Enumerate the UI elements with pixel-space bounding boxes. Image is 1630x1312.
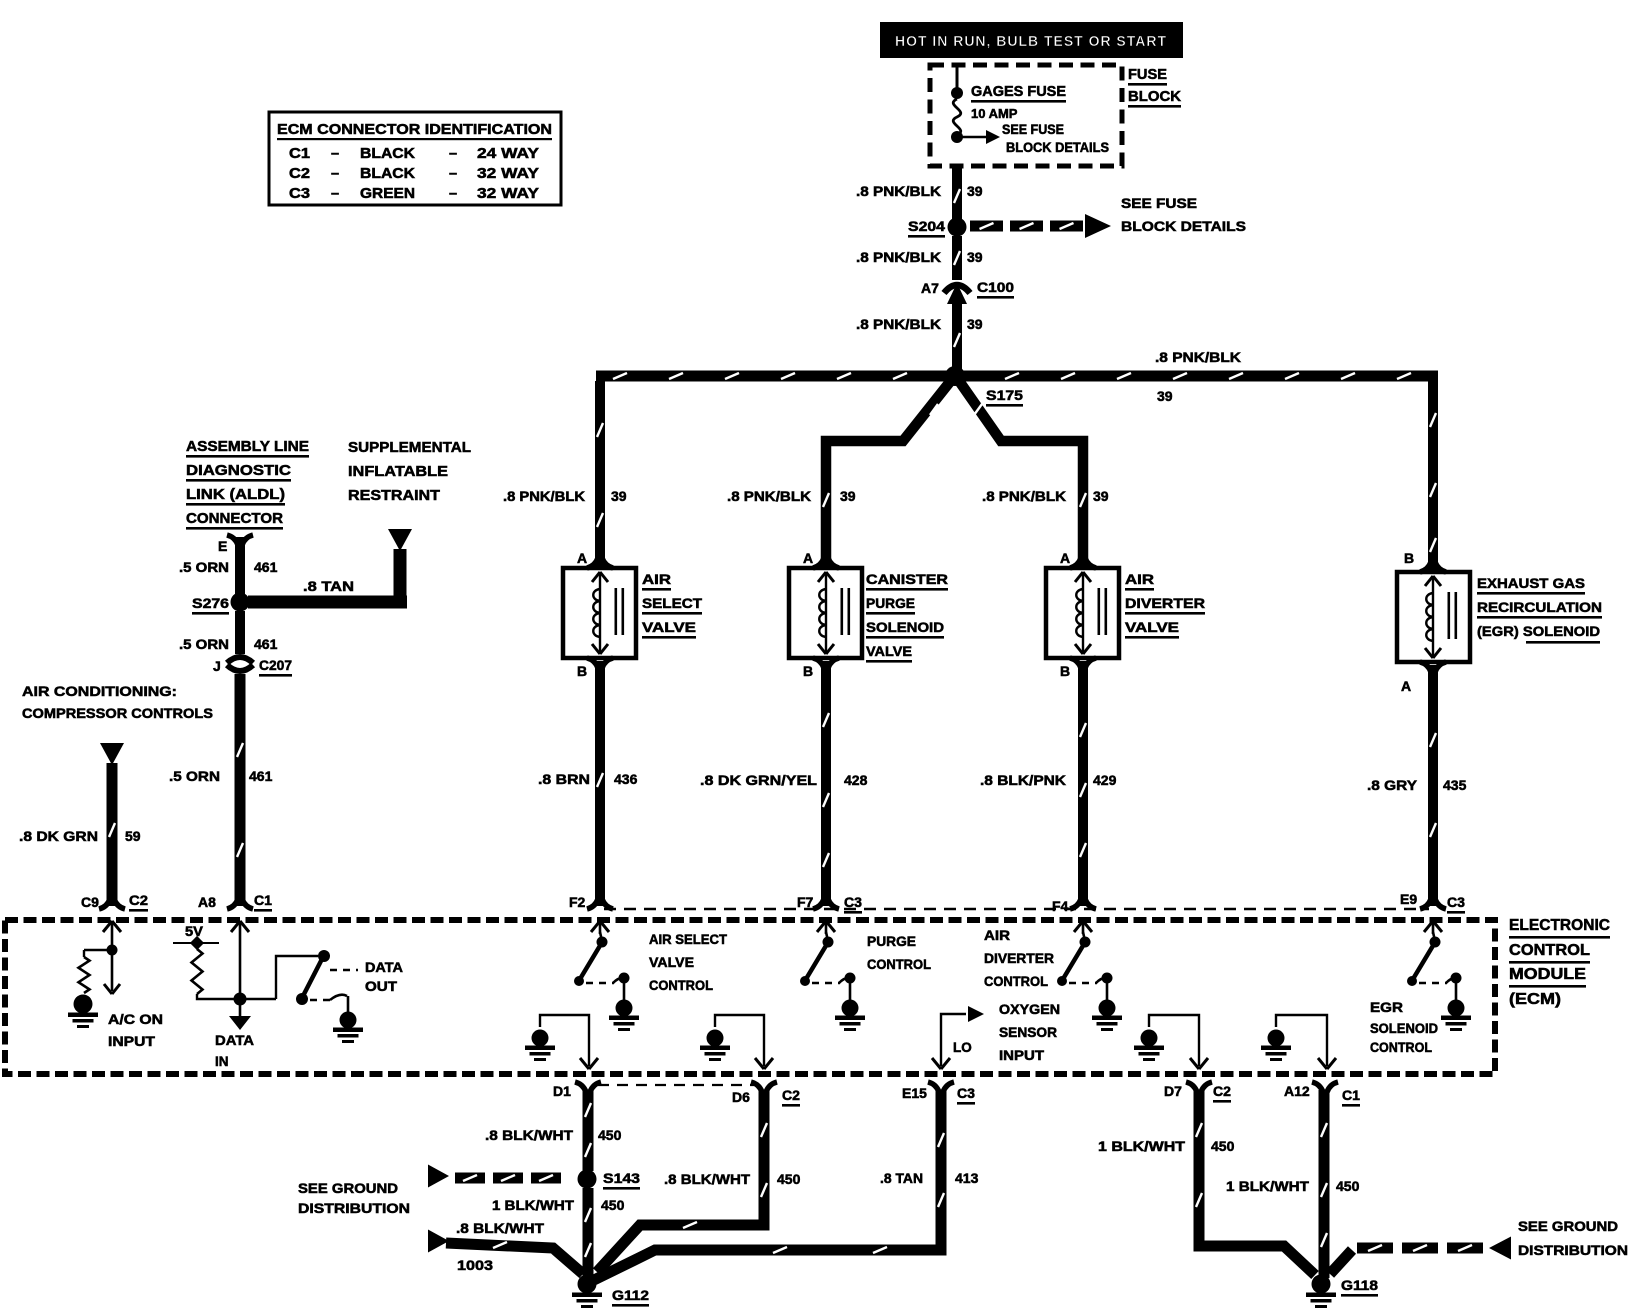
label C100 (977, 279, 1014, 299)
svg-text:B: B (1404, 550, 1414, 566)
label 436 (614, 771, 638, 787)
label .8 PNK/BLK (diverter) (982, 488, 1066, 504)
label A (purge) (803, 550, 813, 566)
label ASSEMBLY LINE (186, 438, 309, 458)
connector ALDL pin E top (227, 535, 253, 545)
label BLOCK DETAILS (in box) (1006, 140, 1109, 155)
label .8 BLK/PNK (980, 772, 1066, 788)
label DIVERTER (ctl) (984, 951, 1054, 966)
svg-text:EXHAUST GAS: EXHAUST GAS (1477, 575, 1585, 591)
label S204 (908, 218, 945, 238)
wire DATA IN (197, 934, 276, 1030)
wire A/C input down arrow (104, 952, 120, 994)
svg-text:.8 BLK/PNK: .8 BLK/PNK (980, 772, 1066, 788)
switch EGR solenoid control E9 (1407, 932, 1471, 1031)
label 39 (diverter) (1093, 488, 1109, 504)
label 39 (S204-C100) (967, 249, 983, 265)
svg-text:BLOCK DETAILS: BLOCK DETAILS (1006, 140, 1109, 155)
pin arrow F4 (1074, 921, 1092, 934)
connector pin F2 at ECM (587, 899, 613, 909)
svg-text:CONTROL: CONTROL (867, 957, 931, 972)
resistor A/C pull-up (79, 950, 110, 993)
label C3 (E9) (1447, 894, 1465, 914)
label AIR CONDITIONING: (22, 683, 177, 699)
label OXYGEN (999, 1002, 1060, 1017)
svg-text:A7: A7 (921, 280, 939, 296)
label 435 (1443, 777, 1467, 793)
svg-text:COMPRESSOR CONTROLS: COMPRESSOR CONTROLS (22, 705, 213, 721)
svg-text:A: A (1401, 678, 1411, 694)
svg-text:F2: F2 (569, 894, 586, 910)
label .5 ORN (C207-A8) (169, 768, 220, 784)
label 450 (A12) (1336, 1178, 1360, 1194)
wire 450 A12 to G118 (1319, 1090, 1330, 1278)
label .8 PNK/BLK (fuse) (856, 183, 941, 199)
label ELECTRONIC (1509, 917, 1610, 939)
svg-text:SELECT: SELECT (642, 595, 702, 611)
svg-text:A12: A12 (1284, 1083, 1310, 1099)
svg-text:1003: 1003 (457, 1257, 493, 1273)
svg-text:1 BLK/WHT: 1 BLK/WHT (492, 1197, 574, 1213)
svg-text:1 BLK/WHT: 1 BLK/WHT (1098, 1138, 1186, 1154)
label .8 PNK/BLK (bus right) (1155, 349, 1241, 365)
label INPUT (O2) (999, 1048, 1045, 1063)
label DISTRIBUTION (right) (1518, 1242, 1628, 1258)
label DIAGNOSTIC (186, 462, 291, 482)
svg-text:450: 450 (601, 1197, 625, 1213)
svg-text:GREEN: GREEN (360, 186, 415, 202)
label DATA (out) (365, 960, 403, 975)
splice S175 (945, 366, 965, 386)
svg-text:.5 ORN: .5 ORN (169, 768, 220, 784)
svg-text:39: 39 (611, 488, 627, 504)
pin arrow F7 (817, 921, 835, 934)
svg-text:AIR: AIR (1125, 571, 1154, 587)
node 5V supply (173, 924, 219, 950)
svg-text:IN: IN (215, 1054, 229, 1069)
svg-text:J: J (213, 658, 221, 674)
svg-text:SEE FUSE: SEE FUSE (1121, 195, 1197, 211)
label AIR (air diverter valve) (1125, 571, 1154, 591)
connector pin A EGR solenoid (1420, 662, 1446, 672)
label 39 (fuse) (967, 183, 983, 199)
label .8 BLK/WHT (1003) (456, 1220, 544, 1236)
svg-text:.8 PNK/BLK: .8 PNK/BLK (503, 488, 585, 504)
label EGR (1370, 1000, 1403, 1015)
svg-text:CANISTER: CANISTER (866, 571, 948, 587)
wire 436 air select B to F2 (595, 661, 605, 906)
svg-text:E9: E9 (1400, 891, 1417, 907)
ground G118 (1312, 1275, 1331, 1294)
label .8 PNK/BLK (air select) (503, 488, 585, 504)
label G112 (612, 1287, 649, 1307)
svg-text:429: 429 (1093, 772, 1117, 788)
label GAGES FUSE (971, 83, 1066, 103)
svg-text:VALVE: VALVE (649, 955, 694, 970)
connector pin E15 at ECM bottom (928, 1082, 954, 1092)
label IN (215, 1054, 229, 1069)
label 413 (955, 1170, 979, 1186)
label CANISTER (canister purge solenoid valve) (866, 571, 948, 591)
svg-text:450: 450 (1211, 1138, 1235, 1154)
svg-text:HOT IN RUN, BULB TEST OR START: HOT IN RUN, BULB TEST OR START (895, 34, 1167, 50)
connector pin B air select valve (587, 658, 613, 668)
label .8 BLK/WHT (D1) (485, 1127, 573, 1143)
svg-text:DIAGNOSTIC: DIAGNOSTIC (186, 462, 291, 479)
wire 450 D6 to G112 (597, 1090, 767, 1272)
label .8 TAN (303, 578, 354, 594)
svg-text:CONTROL: CONTROL (1509, 942, 1590, 959)
svg-text:59: 59 (125, 828, 141, 844)
label SOLENOID (ctl) (1370, 1021, 1438, 1036)
resistor 5V pull-up (192, 949, 203, 994)
label SUPPLEMENTAL (348, 439, 471, 456)
connector pin D1 at ECM bottom (575, 1082, 601, 1092)
svg-text:PURGE: PURGE (867, 934, 916, 949)
wire 1003 to G112 (428, 1230, 583, 1275)
fuse GAGES FUSE 10A element (953, 99, 961, 135)
splice S143 (578, 1170, 597, 1189)
svg-text:S175: S175 (986, 387, 1023, 403)
svg-text:32 WAY: 32 WAY (477, 166, 539, 182)
wire data out switch feed (276, 956, 318, 999)
label C207 (259, 657, 292, 677)
connector pin A8 at ECM (227, 899, 253, 909)
label PURGE (867, 934, 916, 949)
svg-text:.8 DK GRN: .8 DK GRN (19, 828, 98, 844)
svg-text:10 AMP: 10 AMP (971, 106, 1018, 121)
wire .8 TAN to SIR (248, 549, 407, 609)
label E (218, 538, 227, 554)
svg-text:RESTRAINT: RESTRAINT (348, 487, 440, 504)
ground A/C resistor (74, 995, 93, 1014)
svg-text:G118: G118 (1341, 1277, 1378, 1293)
label 450 (D1) (598, 1127, 622, 1143)
label A (diverter) (1060, 550, 1070, 566)
label 450 (S143) (601, 1197, 625, 1213)
svg-text:SEE FUSE: SEE FUSE (1002, 122, 1064, 137)
label SEE GROUND (right) (1518, 1218, 1618, 1234)
connector C207 pin J (227, 657, 253, 671)
label C9 (81, 894, 99, 910)
label SEE FUSE (in box) (1002, 122, 1064, 137)
ground hook D1 (525, 1015, 598, 1069)
label MODULE (1509, 966, 1586, 988)
label SENSOR (999, 1025, 1057, 1040)
connector pin A canister purge solenoid valve (813, 558, 839, 568)
svg-text:C2: C2 (289, 166, 310, 182)
svg-text:DISTRIBUTION: DISTRIBUTION (1518, 1242, 1628, 1258)
wire 413 E15 to G112 (594, 1090, 944, 1280)
label J (213, 658, 221, 674)
label F4 (1052, 898, 1069, 914)
svg-text:–: – (331, 146, 339, 162)
svg-text:A8: A8 (198, 894, 216, 910)
svg-text:CONTROL: CONTROL (984, 974, 1048, 989)
wire arrow to fuse details (957, 130, 1000, 144)
label .8 GRY (1367, 777, 1418, 793)
label 1 BLK/WHT (A12) (1226, 1178, 1309, 1194)
svg-text:E15: E15 (902, 1085, 927, 1101)
svg-text:RECIRCULATION: RECIRCULATION (1477, 599, 1602, 615)
svg-text:INPUT: INPUT (108, 1034, 156, 1049)
svg-text:EGR: EGR (1370, 1000, 1403, 1015)
svg-text:OUT: OUT (365, 979, 398, 994)
label .5 ORN (E) (179, 559, 229, 575)
svg-text:BLOCK: BLOCK (1128, 88, 1181, 105)
svg-text:.8 TAN: .8 TAN (880, 1170, 923, 1186)
label VALVE (ctl) (649, 955, 694, 970)
label INPUT (A/C) (108, 1034, 156, 1049)
label 59 (125, 828, 141, 844)
wire connector row dashed D1-D6 (598, 1084, 755, 1086)
label FUSE (1128, 66, 1167, 86)
label .8 BRN (538, 771, 590, 787)
svg-text:CONNECTOR: CONNECTOR (186, 510, 283, 527)
connector pin F4 at ECM (1070, 899, 1096, 909)
label S276 (192, 595, 229, 615)
svg-text:GAGES FUSE: GAGES FUSE (971, 83, 1066, 100)
svg-text:DIVERTER: DIVERTER (984, 951, 1054, 966)
svg-text:C2: C2 (129, 892, 148, 908)
label CONTROL (diverter) (984, 974, 1048, 989)
wire 39 fuse to S204 (952, 166, 962, 219)
svg-text:.8 PNK/BLK: .8 PNK/BLK (856, 249, 941, 265)
svg-text:.8 BLK/WHT: .8 BLK/WHT (456, 1220, 544, 1236)
label F7 (797, 894, 814, 910)
svg-text:.8 PNK/BLK: .8 PNK/BLK (727, 488, 811, 504)
ground data out (340, 1012, 357, 1029)
svg-text:LINK (ALDL): LINK (ALDL) (186, 486, 285, 503)
connector pin D7 at ECM bottom (1186, 1082, 1212, 1092)
connector C100 pin A7 (944, 283, 970, 304)
label B (diverter) (1060, 663, 1070, 679)
svg-text:SUPPLEMENTAL: SUPPLEMENTAL (348, 439, 471, 456)
ground hook D6 (700, 1015, 773, 1069)
svg-text:C100: C100 (977, 279, 1014, 295)
svg-text:ECM CONNECTOR IDENTIFICATION: ECM CONNECTOR IDENTIFICATION (277, 121, 552, 138)
svg-text:AIR CONDITIONING:: AIR CONDITIONING: (22, 683, 177, 699)
label A (air select) (577, 550, 587, 566)
svg-text:DIVERTER: DIVERTER (1125, 595, 1205, 611)
connection arrow A/C compressor controls (100, 743, 124, 765)
wire dashed arrow see ground distribution (right) (1330, 1237, 1511, 1275)
svg-text:.8 PNK/BLK: .8 PNK/BLK (982, 488, 1066, 504)
label .8 PNK/BLK (purge) (727, 488, 811, 504)
svg-text:AIR SELECT: AIR SELECT (649, 932, 728, 947)
label F2 (569, 894, 586, 910)
svg-text:CONTROL: CONTROL (1370, 1040, 1432, 1055)
svg-text:E: E (218, 538, 227, 554)
label B (purge) (803, 663, 813, 679)
svg-text:PURGE: PURGE (866, 595, 915, 611)
svg-text:A/C ON: A/C ON (108, 1012, 163, 1027)
connector pin D6 at ECM bottom (751, 1082, 777, 1092)
label .8 TAN (E15) (880, 1170, 923, 1186)
label A7 (921, 280, 939, 296)
wire 461 C207 to A8 (235, 674, 246, 906)
label 1 BLK/WHT (S143) (492, 1197, 574, 1213)
svg-text:.8 TAN: .8 TAN (303, 578, 354, 594)
svg-text:VALVE: VALVE (642, 619, 696, 635)
wire fuse feed (956, 66, 959, 91)
svg-text:INFLATABLE: INFLATABLE (348, 463, 448, 480)
label INFLATABLE (348, 463, 448, 480)
svg-text:–: – (449, 166, 457, 182)
wire 461 S276 to C207 (235, 611, 245, 654)
ground hook D7 (1134, 1015, 1208, 1069)
connector pin C9 at ECM (99, 899, 125, 909)
label .5 ORN (S276-C207) (179, 636, 229, 652)
connector pin A air select valve (587, 558, 613, 568)
splice S276 (231, 593, 250, 612)
wire oxygen sensor input E15 (932, 1006, 984, 1069)
label C1 (A12) (1342, 1087, 1360, 1107)
label BLOCK (1128, 88, 1181, 108)
wire bus to EGR solenoid (1428, 381, 1438, 570)
label BLOCK DETAILS (1121, 218, 1246, 234)
svg-text:450: 450 (1336, 1178, 1360, 1194)
label RECIRCULATION (EGR solenoid) (1477, 599, 1602, 619)
svg-text:450: 450 (598, 1127, 622, 1143)
svg-text:B: B (577, 663, 587, 679)
label 1003 (457, 1257, 493, 1273)
label DISTRIBUTION (left) (298, 1200, 410, 1216)
svg-text:C1: C1 (1342, 1087, 1360, 1103)
svg-text:1 BLK/WHT: 1 BLK/WHT (1226, 1178, 1309, 1194)
label CONNECTOR (186, 510, 283, 530)
label CONTROL (air select) (649, 978, 713, 993)
label EXHAUST GAS (EGR solenoid) (1477, 575, 1585, 595)
wire dashed arrow S204 to fuse details (970, 214, 1111, 238)
svg-text:INPUT: INPUT (999, 1048, 1045, 1063)
label 39 (C100-S175) (967, 316, 983, 332)
node A/C input junction (107, 934, 118, 956)
label 39 (purge) (840, 488, 856, 504)
svg-text:C3: C3 (844, 894, 862, 910)
label D6 (732, 1089, 750, 1105)
label LO (953, 1040, 972, 1055)
svg-text:39: 39 (967, 316, 983, 332)
svg-text:461: 461 (249, 768, 273, 784)
wire 450 S143 to G112 (583, 1188, 594, 1277)
svg-text:S276: S276 (192, 595, 229, 611)
label .8 DK GRN/YEL (700, 772, 818, 788)
wire dashed arrow see ground distribution (left) (428, 1165, 561, 1188)
svg-text:C3: C3 (1447, 894, 1465, 910)
node fuse top (951, 87, 963, 99)
svg-text:–: – (449, 146, 457, 162)
svg-text:SOLENOID: SOLENOID (866, 619, 944, 635)
table ECM connector identification (269, 112, 561, 205)
fuse block dashed box (930, 65, 1122, 166)
wire 39 S204 to C100 (952, 236, 962, 280)
label CONTROL (purge) (867, 957, 931, 972)
svg-text:39: 39 (967, 249, 983, 265)
label CONTROL (1509, 942, 1590, 964)
svg-text:B: B (803, 663, 813, 679)
label E15 (902, 1085, 927, 1101)
label SEE GROUND (left) (298, 1180, 398, 1196)
svg-text:39: 39 (840, 488, 856, 504)
svg-text:ASSEMBLY LINE: ASSEMBLY LINE (186, 438, 309, 455)
label 39 (bus right) (1157, 388, 1173, 404)
svg-text:MODULE: MODULE (1509, 966, 1586, 983)
svg-text:.5 ORN: .5 ORN (179, 636, 229, 652)
svg-text:S204: S204 (908, 218, 945, 234)
svg-text:.8 BRN: .8 BRN (538, 771, 590, 787)
svg-text:D6: D6 (732, 1089, 750, 1105)
svg-text:OXYGEN: OXYGEN (999, 1002, 1060, 1017)
switch purge control F7 (800, 932, 865, 1031)
solenoid valve air diverter valve (1046, 568, 1119, 658)
node fuse bottom (951, 131, 963, 143)
connector pin B canister purge solenoid valve (813, 658, 839, 668)
solenoid valve EGR solenoid (1397, 572, 1470, 662)
svg-text:435: 435 (1443, 777, 1467, 793)
connector pin A air diverter valve (1070, 558, 1096, 568)
wire 435 EGR A to E9 (1428, 665, 1438, 906)
label B (air select) (577, 663, 587, 679)
label C3 (F7) (844, 894, 862, 914)
connector pin A12 at ECM bottom (1312, 1082, 1338, 1092)
wire connector row dashed F2-E9 (604, 908, 1429, 910)
svg-text:C3: C3 (957, 1085, 975, 1101)
svg-text:S143: S143 (603, 1170, 640, 1186)
svg-text:461: 461 (254, 636, 278, 652)
label SEE FUSE (1121, 195, 1197, 211)
label AIR SELECT (649, 932, 728, 947)
svg-text:BLACK: BLACK (360, 166, 416, 182)
label .8 PNK/BLK (C100-S175) (856, 316, 941, 332)
label 39 (air select) (611, 488, 627, 504)
svg-text:.8 BLK/WHT: .8 BLK/WHT (664, 1171, 750, 1187)
pin arrow A8 (231, 921, 249, 934)
svg-text:C207: C207 (259, 657, 292, 673)
wire 429 diverter B to F4 (1078, 661, 1088, 906)
svg-text:AIR: AIR (642, 571, 671, 587)
svg-text:461: 461 (254, 559, 278, 575)
svg-text:SEE GROUND: SEE GROUND (298, 1180, 398, 1196)
label C1 (A8) (254, 892, 272, 912)
svg-text:–: – (331, 186, 339, 202)
svg-text:C3: C3 (289, 186, 310, 202)
label CONTROL (EGR) (1370, 1040, 1432, 1055)
label LINK (ALDL) (186, 486, 285, 506)
svg-text:.8 DK GRN/YEL: .8 DK GRN/YEL (700, 772, 818, 788)
label 450 (D6) (777, 1171, 801, 1187)
label A8 (198, 894, 216, 910)
electronic control module ECM dashed box (5, 920, 1495, 1074)
svg-text:AIR: AIR (984, 928, 1010, 943)
label D7 (1164, 1083, 1182, 1099)
solenoid valve air select valve (563, 568, 636, 658)
label SELECT (air select valve) (642, 595, 702, 615)
wire 450 D1 to S143 (583, 1090, 594, 1171)
svg-text:(ECM): (ECM) (1509, 991, 1561, 1008)
svg-text:–: – (331, 166, 339, 182)
wire .8 PNK/BLK 39 bus (596, 371, 1438, 382)
wire S175 branch to canister purge (823, 378, 953, 566)
label E9 (1400, 891, 1417, 907)
svg-text:.8 GRY: .8 GRY (1367, 777, 1418, 793)
svg-text:D7: D7 (1164, 1083, 1182, 1099)
svg-text:–: – (449, 186, 457, 202)
label DATA (in) (215, 1033, 254, 1048)
wire bus to air select valve (595, 381, 605, 566)
svg-text:A: A (577, 550, 587, 566)
wire S175 branch to air diverter (957, 378, 1086, 566)
